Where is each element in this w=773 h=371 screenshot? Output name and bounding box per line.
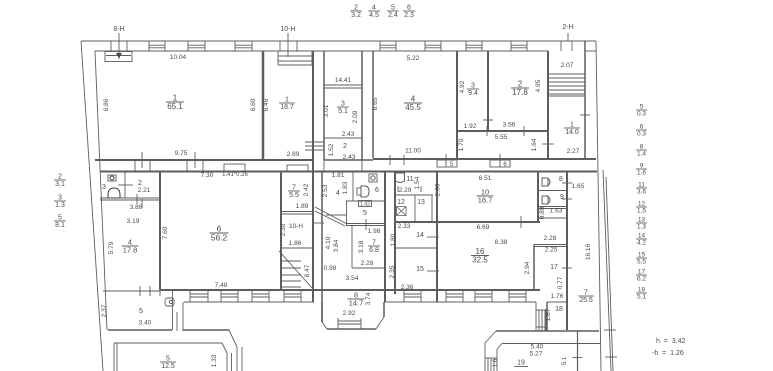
svg-text:5.1: 5.1	[637, 294, 646, 301]
svg-text:1.89: 1.89	[296, 203, 309, 210]
svg-text:15: 15	[416, 266, 424, 273]
svg-text:6.69: 6.69	[477, 224, 490, 231]
svg-text:1: 1	[285, 97, 289, 104]
svg-text:7.30: 7.30	[201, 172, 214, 179]
svg-text:14: 14	[416, 232, 424, 239]
svg-text:9: 9	[560, 194, 564, 201]
svg-text:2: 2	[354, 5, 358, 12]
svg-text:17: 17	[638, 269, 646, 276]
svg-text:2.92: 2.92	[343, 310, 356, 317]
svg-text:2.53: 2.53	[322, 184, 329, 197]
svg-text:5: 5	[391, 5, 395, 12]
svg-text:9.4: 9.4	[468, 90, 478, 97]
svg-text:-h = 1.26: -h = 1.26	[652, 350, 684, 357]
svg-text:1.3: 1.3	[55, 202, 65, 209]
svg-text:14.7: 14.7	[349, 299, 364, 308]
svg-text:15: 15	[638, 252, 646, 259]
svg-text:4.10: 4.10	[325, 236, 332, 249]
svg-text:5.1: 5.1	[562, 356, 568, 365]
svg-text:8: 8	[640, 144, 644, 151]
svg-text:2.29: 2.29	[399, 187, 412, 194]
svg-text:0.77: 0.77	[557, 276, 564, 289]
svg-text:2: 2	[343, 143, 347, 150]
svg-text:1.92: 1.92	[464, 123, 477, 130]
svg-text:1.81: 1.81	[332, 172, 345, 179]
svg-text:3.19: 3.19	[127, 218, 140, 225]
svg-text:3.2: 3.2	[351, 12, 361, 19]
svg-text:14.0: 14.0	[565, 129, 579, 136]
svg-text:2.09: 2.09	[352, 110, 359, 123]
svg-text:1.52: 1.52	[328, 143, 335, 156]
svg-text:3.56: 3.56	[503, 122, 516, 129]
svg-text:8.38: 8.38	[495, 239, 508, 246]
svg-text:3.40: 3.40	[139, 320, 152, 327]
svg-text:13: 13	[417, 199, 425, 206]
svg-text:5.5: 5.5	[637, 259, 646, 266]
svg-text:1.76: 1.76	[551, 293, 564, 300]
svg-text:6.8: 6.8	[369, 247, 379, 254]
svg-text:2.43: 2.43	[343, 154, 356, 161]
svg-text:4: 4	[372, 5, 376, 12]
svg-text:2.94: 2.94	[524, 261, 531, 274]
svg-text:10-Н: 10-Н	[280, 26, 295, 33]
svg-text:18.7: 18.7	[280, 104, 294, 111]
svg-text:8.47: 8.47	[304, 264, 311, 277]
svg-text:2.3: 2.3	[404, 12, 414, 19]
svg-text:3.84: 3.84	[333, 239, 340, 252]
svg-text:19: 19	[517, 360, 525, 367]
svg-text:4.5: 4.5	[369, 12, 379, 19]
svg-text:3.01: 3.01	[323, 104, 330, 117]
svg-text:18: 18	[555, 306, 563, 313]
svg-text:18: 18	[638, 287, 646, 294]
svg-text:5: 5	[166, 356, 170, 363]
svg-text:1.4: 1.4	[637, 151, 646, 158]
svg-text:2.89: 2.89	[287, 151, 300, 158]
svg-text:7: 7	[584, 290, 588, 297]
svg-text:2.35: 2.35	[389, 265, 396, 278]
svg-text:3.88: 3.88	[130, 204, 143, 211]
svg-text:0.89: 0.89	[539, 206, 546, 219]
svg-text:32.5: 32.5	[472, 256, 488, 265]
svg-text:2.00: 2.00	[435, 183, 442, 196]
svg-text:1.83: 1.83	[342, 181, 349, 194]
svg-text:3.6: 3.6	[637, 189, 646, 196]
svg-text:6.51: 6.51	[479, 175, 492, 182]
svg-text:0.3: 0.3	[637, 131, 646, 138]
svg-text:2.37: 2.37	[101, 304, 108, 317]
svg-text:8: 8	[559, 176, 563, 183]
svg-text:6: 6	[375, 187, 379, 194]
svg-text:3.54: 3.54	[346, 275, 359, 282]
svg-text:2.28: 2.28	[544, 235, 557, 242]
svg-text:3.1: 3.1	[55, 181, 65, 188]
svg-text:12.5: 12.5	[161, 363, 175, 370]
svg-text:2.43: 2.43	[342, 131, 355, 138]
svg-text:6: 6	[407, 5, 411, 12]
svg-text:1.42: 1.42	[360, 202, 370, 208]
svg-text:2.21: 2.21	[138, 187, 151, 194]
svg-text:6.2: 6.2	[637, 276, 646, 283]
svg-text:2.30: 2.30	[280, 223, 287, 236]
svg-text:1.63: 1.63	[550, 208, 563, 215]
svg-text:1.80: 1.80	[390, 233, 397, 246]
svg-text:7.60: 7.60	[162, 226, 169, 239]
svg-text:2.42: 2.42	[303, 183, 310, 196]
svg-text:2: 2	[58, 174, 62, 181]
svg-text:3.18: 3.18	[358, 240, 365, 253]
svg-text:11.00: 11.00	[405, 148, 421, 155]
svg-text:10-Н: 10-Н	[289, 223, 303, 230]
svg-text:6.60: 6.60	[250, 98, 257, 111]
svg-text:2.25: 2.25	[545, 247, 558, 254]
svg-text:1.54: 1.54	[414, 176, 421, 189]
svg-text:5.1: 5.1	[338, 108, 348, 115]
svg-text:1.6: 1.6	[493, 358, 499, 367]
svg-text:5: 5	[363, 210, 367, 217]
svg-text:4: 4	[336, 190, 340, 197]
svg-text:10.04: 10.04	[170, 54, 187, 61]
svg-text:1.5: 1.5	[637, 208, 646, 215]
svg-text:5: 5	[640, 104, 644, 111]
svg-text:2: 2	[138, 180, 142, 187]
svg-text:5.27: 5.27	[530, 351, 543, 358]
svg-text:8.1: 8.1	[55, 222, 65, 229]
svg-text:5: 5	[139, 308, 143, 315]
svg-text:3: 3	[58, 195, 62, 202]
svg-text:5.22: 5.22	[407, 55, 420, 62]
svg-text:2.27: 2.27	[567, 148, 580, 155]
svg-text:4.95: 4.95	[535, 79, 542, 92]
svg-text:56.2: 56.2	[211, 233, 228, 243]
svg-text:1.70: 1.70	[458, 138, 465, 151]
svg-text:25.5: 25.5	[579, 297, 593, 304]
svg-text:h = 3.42: h = 3.42	[656, 338, 685, 345]
svg-text:8-Н: 8-Н	[113, 26, 124, 33]
svg-text:13: 13	[638, 217, 646, 224]
svg-text:1.87: 1.87	[545, 308, 552, 321]
svg-text:1.65: 1.65	[572, 183, 585, 190]
svg-text:65.1: 65.1	[167, 102, 183, 111]
svg-text:4.92: 4.92	[459, 80, 466, 93]
svg-text:1.86: 1.86	[289, 240, 302, 247]
svg-text:9: 9	[640, 163, 644, 170]
svg-text:2-Н: 2-Н	[562, 24, 573, 31]
svg-text:5.79: 5.79	[108, 241, 115, 254]
svg-text:7: 7	[292, 185, 296, 192]
svg-text:4.2: 4.2	[637, 240, 646, 247]
svg-text:7: 7	[372, 240, 376, 247]
svg-text:0.98: 0.98	[324, 265, 337, 272]
svg-text:45.5: 45.5	[405, 103, 421, 112]
svg-text:3: 3	[471, 83, 475, 90]
svg-text:1.6: 1.6	[637, 170, 646, 177]
svg-text:1.41*0.26: 1.41*0.26	[222, 172, 248, 178]
svg-text:3: 3	[102, 184, 106, 191]
svg-text:7.48: 7.48	[215, 282, 228, 289]
svg-text:12: 12	[638, 201, 646, 208]
svg-text:11: 11	[406, 176, 413, 183]
svg-text:11: 11	[638, 182, 645, 189]
svg-text:1.98: 1.98	[368, 228, 381, 235]
svg-text:5.55: 5.55	[495, 134, 508, 141]
svg-text:6: 6	[640, 124, 644, 131]
svg-text:2.33: 2.33	[398, 223, 411, 230]
svg-text:1: 1	[570, 122, 574, 129]
svg-text:6.65: 6.65	[372, 97, 379, 110]
svg-text:12: 12	[397, 199, 405, 206]
svg-text:3.74: 3.74	[365, 292, 372, 305]
svg-text:16.16: 16.16	[585, 243, 592, 260]
svg-text:14.41: 14.41	[335, 77, 352, 84]
svg-text:0.3: 0.3	[637, 111, 646, 118]
svg-text:3: 3	[341, 101, 345, 108]
svg-text:2.28: 2.28	[361, 260, 374, 267]
svg-text:14: 14	[638, 233, 646, 240]
svg-text:5: 5	[58, 215, 62, 222]
svg-text:6.46: 6.46	[263, 98, 270, 111]
svg-text:9.75: 9.75	[175, 150, 188, 157]
svg-text:6.86: 6.86	[103, 98, 110, 111]
svg-text:2.07: 2.07	[561, 62, 574, 69]
svg-text:1.3: 1.3	[637, 224, 646, 231]
svg-text:18.7: 18.7	[478, 196, 493, 205]
svg-text:2.4: 2.4	[388, 12, 398, 19]
svg-text:5.5: 5.5	[289, 192, 299, 199]
svg-text:5.40: 5.40	[531, 344, 544, 351]
svg-text:17: 17	[550, 264, 558, 271]
svg-text:1.33: 1.33	[211, 354, 218, 367]
svg-text:17.8: 17.8	[123, 246, 138, 255]
svg-text:17.8: 17.8	[512, 88, 528, 97]
svg-text:1.64: 1.64	[531, 138, 538, 151]
